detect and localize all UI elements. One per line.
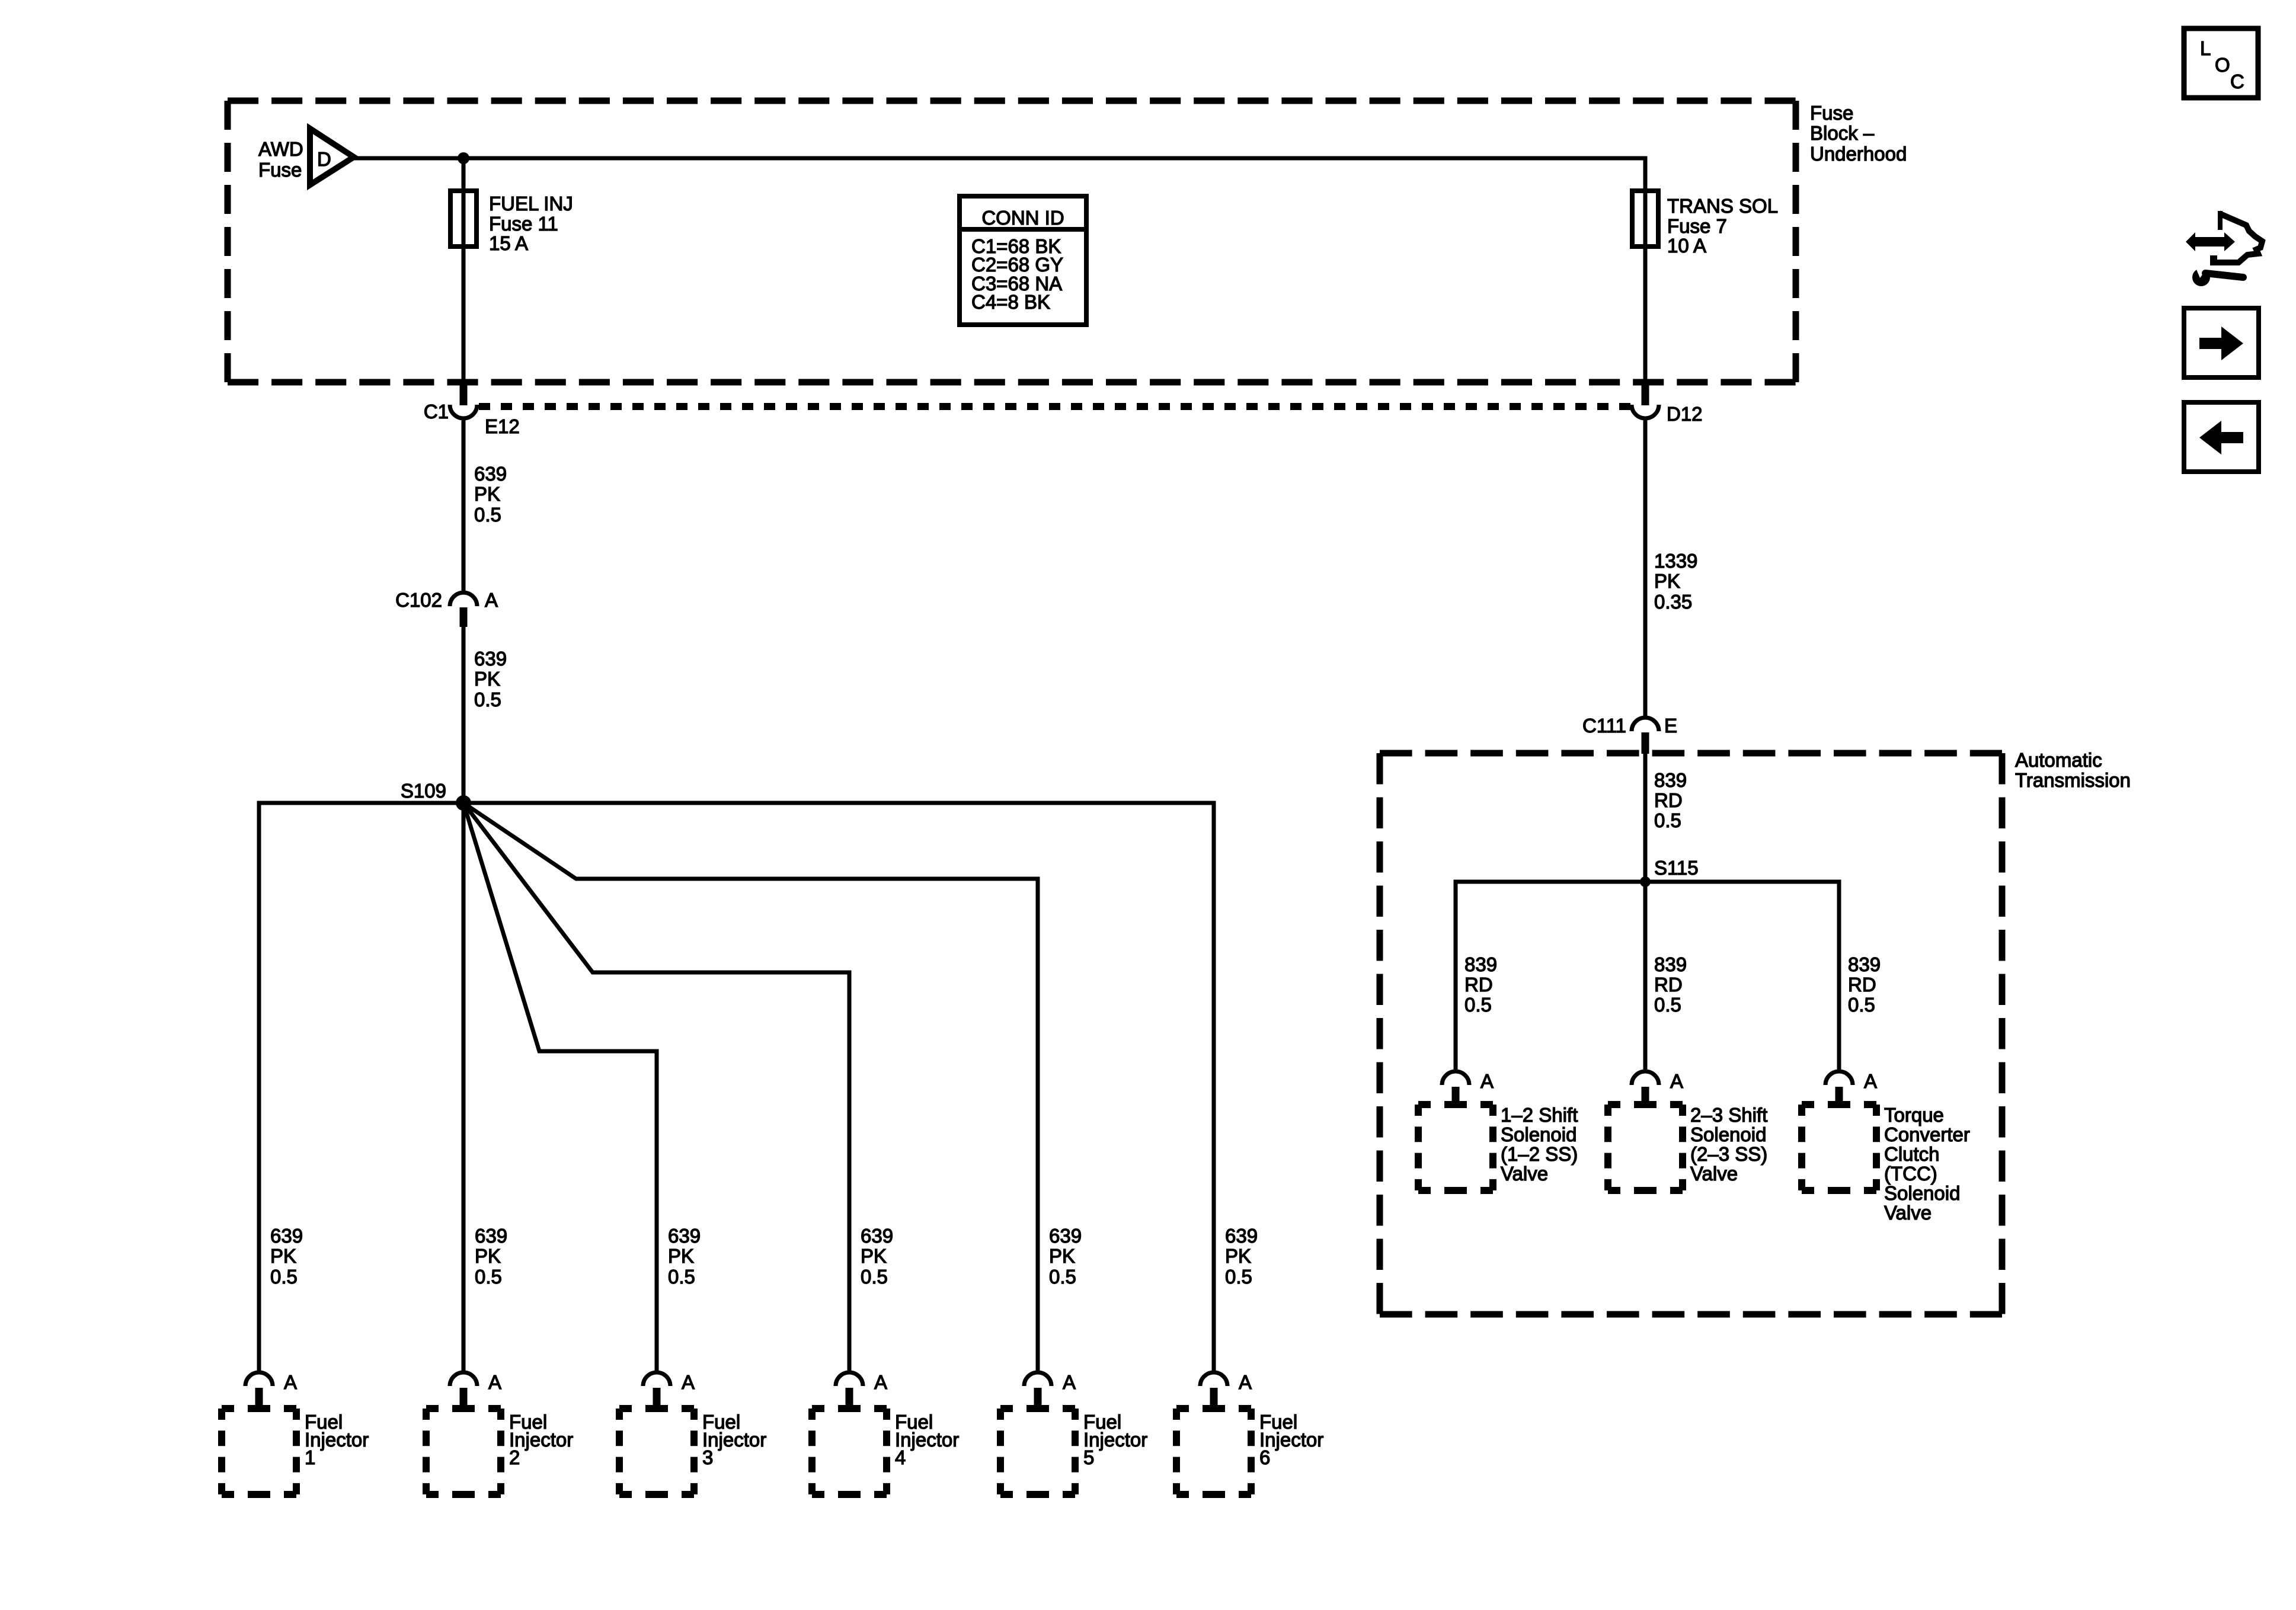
connector pin stub at fuel injector 4: [846, 1388, 853, 1410]
svg-text:A: A: [284, 1371, 297, 1393]
svg-text:Block –: Block –: [1810, 122, 1875, 144]
svg-text:Solenoid: Solenoid: [1884, 1182, 1960, 1204]
wire junction to fuse 11 to C1: [462, 158, 466, 386]
connector dome at fuel injector 2: [450, 1372, 477, 1386]
svg-text:CONN ID: CONN ID: [981, 207, 1064, 229]
label S109: [401, 780, 446, 802]
wire S115 bus: [1456, 882, 1839, 1071]
label fuel injector 1: [305, 1411, 369, 1468]
svg-text:(1–2 SS): (1–2 SS): [1501, 1143, 1578, 1165]
svg-text:A: A: [1864, 1070, 1877, 1092]
label S115: [1654, 857, 1699, 879]
svg-text:A: A: [485, 589, 498, 611]
2-3 shift solenoid valve dashed box: [1608, 1105, 1683, 1190]
label wire 839 RD 0.5 (2-3 shift solenoid valve): [1654, 953, 1687, 1016]
fuel injector 1 dashed box: [222, 1409, 296, 1494]
fuel injector 4 dashed box: [812, 1409, 887, 1494]
label wire 639 PK 0.5 (injector 4): [861, 1225, 893, 1288]
svg-text:Valve: Valve: [1884, 1202, 1932, 1224]
svg-text:0.5: 0.5: [1848, 994, 1875, 1016]
connector dome at fuel injector 6: [1200, 1372, 1227, 1386]
fuse F7 TRANS SOL symbol: [1632, 191, 1658, 247]
label A at fuel injector 4: [874, 1371, 887, 1393]
connector dome at TCC solenoid valve: [1825, 1071, 1853, 1085]
svg-text:S115: S115: [1654, 857, 1699, 879]
connector dome at fuel injector 4: [836, 1372, 863, 1386]
connector pin stub at fuel injector 6: [1210, 1388, 1218, 1410]
label fuel injector 4: [895, 1411, 959, 1468]
label 2-3 shift solenoid valve: [1690, 1104, 1767, 1185]
label wire 639 PK 0.5 (injector 2): [475, 1225, 507, 1288]
label C1: [424, 401, 449, 422]
svg-text:639: 639: [1049, 1225, 1082, 1247]
label A at fuel injector 6: [1239, 1371, 1252, 1393]
label fuel injector 5: [1083, 1411, 1147, 1468]
label A at 1-2 shift solenoid valve: [1480, 1070, 1494, 1092]
connector pin stub at 1-2 shift solenoid valve: [1452, 1087, 1460, 1107]
svg-text:639: 639: [1225, 1225, 1258, 1247]
svg-text:0.5: 0.5: [270, 1266, 298, 1288]
svg-text:PK: PK: [475, 1245, 501, 1267]
connector C111 dome: [1632, 718, 1659, 731]
svg-text:E: E: [1664, 715, 1677, 737]
wire top feed: [354, 158, 1645, 196]
connector dome at fuel injector 5: [1024, 1372, 1051, 1386]
label wire 639 PK 0.5 (1): [474, 463, 507, 526]
connector C1 pin stub: [460, 384, 468, 405]
svg-text:A: A: [874, 1371, 887, 1393]
svg-text:PK: PK: [1654, 570, 1680, 592]
connector dome at fuel injector 1: [245, 1372, 273, 1386]
svg-text:4: 4: [895, 1446, 906, 1468]
wire S109 diagonal to injector 5 column: [463, 803, 1038, 1372]
svg-text:0.5: 0.5: [474, 689, 501, 710]
svg-text:A: A: [1063, 1371, 1076, 1393]
svg-text:3: 3: [702, 1446, 713, 1468]
connector pin stub at fuel injector 1: [255, 1388, 263, 1410]
svg-text:A: A: [488, 1371, 501, 1393]
svg-text:839: 839: [1654, 953, 1687, 975]
svg-text:1339: 1339: [1654, 550, 1697, 572]
svg-text:RD: RD: [1654, 974, 1683, 996]
svg-text:0.5: 0.5: [1654, 994, 1681, 1016]
connector C111 pin stub: [1642, 732, 1649, 754]
forward arrow box: [2184, 308, 2259, 377]
Automatic Transmission dashed box: [1380, 753, 2002, 1314]
svg-text:0.5: 0.5: [474, 504, 501, 526]
svg-text:839: 839: [1654, 769, 1687, 791]
wire S109 diagonal to injector 4 column: [463, 803, 849, 1372]
svg-text:1: 1: [305, 1446, 315, 1468]
connector pin stub at fuel injector 3: [653, 1388, 661, 1410]
svg-text:0.5: 0.5: [1225, 1266, 1252, 1288]
label wire 639 PK 0.5 (injector 1): [270, 1225, 303, 1288]
label wire 839 RD 0.5 (1-2 shift solenoid valve): [1464, 953, 1497, 1016]
svg-text:E12: E12: [485, 415, 520, 437]
label fuel injector 2: [509, 1411, 573, 1468]
svg-text:2–3 Shift: 2–3 Shift: [1690, 1104, 1767, 1126]
label AWD Fuse: [258, 138, 303, 181]
svg-text:(2–3 SS): (2–3 SS): [1690, 1143, 1767, 1165]
fuel injector 3 dashed box: [619, 1409, 694, 1494]
label A at TCC solenoid valve: [1864, 1070, 1877, 1092]
wire injector 2 column: [462, 803, 466, 1372]
svg-text:L: L: [2200, 37, 2211, 59]
splice S115 dot: [1640, 876, 1651, 887]
connector C102 pin stub: [460, 607, 468, 627]
svg-text:839: 839: [1848, 953, 1881, 975]
svg-text:Fuse 7: Fuse 7: [1667, 215, 1727, 237]
svg-text:PK: PK: [861, 1245, 887, 1267]
svg-text:PK: PK: [270, 1245, 296, 1267]
svg-text:A: A: [1480, 1070, 1494, 1092]
label C111: [1582, 715, 1626, 737]
svg-text:A: A: [1670, 1070, 1683, 1092]
wire C102 to S109: [462, 627, 466, 799]
connector C102 dome: [450, 593, 477, 606]
svg-text:C1: C1: [424, 401, 449, 422]
label fuel injector 3: [702, 1411, 766, 1468]
label A at fuel injector 5: [1063, 1371, 1076, 1393]
label FUEL INJ Fuse 11 15 A: [489, 193, 573, 254]
svg-text:0.35: 0.35: [1654, 591, 1692, 613]
junction dot at fuse 11 tap: [458, 152, 469, 164]
wire C1 to C102: [462, 419, 466, 593]
svg-text:A: A: [1239, 1371, 1252, 1393]
svg-text:639: 639: [668, 1225, 701, 1247]
svg-text:5: 5: [1083, 1446, 1094, 1468]
label D12: [1667, 403, 1703, 425]
svg-text:Underhood: Underhood: [1810, 143, 1907, 165]
svg-text:S109: S109: [401, 780, 446, 802]
connector pin stub at TCC solenoid valve: [1835, 1087, 1843, 1107]
label A at fuel injector 1: [284, 1371, 297, 1393]
wire S109 bus to injector 1 and 6: [259, 803, 1214, 1372]
svg-text:Automatic: Automatic: [2015, 749, 2102, 771]
svg-text:FUEL INJ: FUEL INJ: [489, 193, 573, 215]
svg-text:639: 639: [474, 648, 507, 670]
connector dome at 1-2 shift solenoid valve: [1442, 1071, 1469, 1085]
fuel injector 6 dashed box: [1176, 1409, 1251, 1494]
splice S109 dot: [456, 795, 471, 811]
svg-text:RD: RD: [1654, 789, 1683, 811]
1-2 shift solenoid valve dashed box: [1418, 1105, 1493, 1190]
svg-text:PK: PK: [1049, 1245, 1075, 1267]
connector dome at fuel injector 3: [643, 1372, 670, 1386]
label fuel injector 6: [1259, 1411, 1323, 1468]
label wire 839 RD 0.5 at C111: [1654, 769, 1687, 831]
svg-text:PK: PK: [474, 668, 500, 690]
svg-text:PK: PK: [1225, 1245, 1251, 1267]
svg-text:Clutch: Clutch: [1884, 1143, 1940, 1165]
backward arrow box: [2184, 402, 2259, 472]
fuel injector 5 dashed box: [1000, 1409, 1075, 1494]
LOC reference box: [2184, 28, 2258, 98]
svg-text:639: 639: [474, 463, 507, 485]
label A at fuel injector 2: [488, 1371, 501, 1393]
svg-text:D: D: [317, 148, 331, 170]
svg-text:0.5: 0.5: [668, 1266, 695, 1288]
AWD Fuse feed triangle D: [310, 129, 354, 185]
svg-text:Transmission: Transmission: [2015, 769, 2131, 791]
svg-text:TRANS SOL: TRANS SOL: [1667, 195, 1778, 217]
svg-text:Fuse: Fuse: [1810, 102, 1853, 124]
svg-text:639: 639: [270, 1225, 303, 1247]
connector pin stub at 2-3 shift solenoid valve: [1642, 1087, 1649, 1107]
connector D12 cup: [1632, 405, 1659, 418]
svg-text:10 A: 10 A: [1667, 235, 1706, 257]
svg-text:C102: C102: [395, 589, 442, 611]
Fuse Block - Underhood dashed box: [228, 101, 1796, 382]
label wire 639 PK 0.5 (injector 6): [1225, 1225, 1258, 1288]
svg-text:0.5: 0.5: [1464, 994, 1492, 1016]
svg-text:PK: PK: [474, 483, 500, 505]
svg-text:Valve: Valve: [1690, 1163, 1738, 1185]
wire S115 to 2-3 shift solenoid: [1643, 882, 1648, 1071]
powertrain connector-end view icon (hood outline, double arrow): [2186, 211, 2262, 265]
label TRANS SOL Fuse 7 10 A: [1667, 195, 1778, 257]
label E at C111: [1664, 715, 1677, 737]
connector pin stub at fuel injector 2: [460, 1388, 468, 1410]
svg-text:Fuse 11: Fuse 11: [489, 213, 558, 235]
svg-text:Valve: Valve: [1501, 1163, 1548, 1185]
svg-text:0.5: 0.5: [475, 1266, 502, 1288]
label A at 2-3 shift solenoid valve: [1670, 1070, 1683, 1092]
wire D12 to C111: [1643, 419, 1648, 718]
svg-text:PK: PK: [668, 1245, 694, 1267]
label wire 639 PK 0.5 (injector 5): [1049, 1225, 1082, 1288]
fuel injector 2 dashed box: [426, 1409, 501, 1494]
svg-text:15 A: 15 A: [489, 232, 528, 254]
CONN ID table: [960, 196, 1086, 325]
connector C1 cup: [450, 405, 477, 418]
connector pin stub at fuel injector 5: [1034, 1388, 1042, 1410]
svg-text:639: 639: [475, 1225, 507, 1247]
svg-text:2: 2: [509, 1446, 520, 1468]
svg-text:639: 639: [861, 1225, 893, 1247]
connector dome at 2-3 shift solenoid valve: [1632, 1071, 1659, 1085]
harness boundary dotted line: [479, 403, 1630, 410]
svg-text:C4=8 BK: C4=8 BK: [971, 291, 1050, 313]
TCC solenoid valve dashed box: [1802, 1105, 1876, 1190]
label A at C102: [485, 589, 498, 611]
svg-text:Solenoid: Solenoid: [1690, 1124, 1766, 1145]
svg-text:Torque: Torque: [1884, 1104, 1944, 1126]
svg-text:RD: RD: [1848, 974, 1876, 996]
wire fuse 7 to D12: [1643, 196, 1648, 386]
label Automatic Transmission: [2015, 749, 2131, 791]
label Fuse Block - Underhood: [1810, 102, 1907, 165]
svg-text:A: A: [682, 1371, 695, 1393]
label C102: [395, 589, 442, 611]
svg-text:(TCC): (TCC): [1884, 1163, 1937, 1185]
svg-text:0.5: 0.5: [861, 1266, 888, 1288]
svg-text:C111: C111: [1582, 715, 1626, 737]
wire C111 to S115: [1643, 754, 1648, 878]
wire S109 diagonal to injector 3 column: [463, 803, 657, 1372]
svg-text:D12: D12: [1667, 403, 1703, 425]
label wire 1339 PK 0.35: [1654, 550, 1697, 613]
label wire 839 RD 0.5 (TCC solenoid valve): [1848, 953, 1881, 1016]
svg-text:Fuse: Fuse: [258, 159, 302, 181]
connector D12 pin stub: [1642, 384, 1649, 405]
label wire 639 PK 0.5 (2): [474, 648, 507, 710]
svg-text:839: 839: [1464, 953, 1497, 975]
label E12: [485, 415, 520, 437]
svg-text:O: O: [2215, 54, 2230, 76]
svg-text:RD: RD: [1464, 974, 1493, 996]
label TCC solenoid valve: [1884, 1104, 1970, 1224]
svg-text:6: 6: [1259, 1446, 1270, 1468]
svg-text:Solenoid: Solenoid: [1501, 1124, 1576, 1145]
wrench icon: [2192, 267, 2243, 286]
fuse F11 FUEL INJ symbol: [450, 191, 477, 247]
label 1-2 shift solenoid valve: [1501, 1104, 1578, 1185]
label wire 639 PK 0.5 (injector 3): [668, 1225, 701, 1288]
svg-text:Converter: Converter: [1884, 1124, 1970, 1145]
svg-text:1–2 Shift: 1–2 Shift: [1501, 1104, 1578, 1126]
svg-text:0.5: 0.5: [1049, 1266, 1076, 1288]
svg-text:C: C: [2230, 71, 2244, 92]
svg-text:0.5: 0.5: [1654, 809, 1681, 831]
svg-text:AWD: AWD: [258, 138, 303, 160]
label A at fuel injector 3: [682, 1371, 695, 1393]
